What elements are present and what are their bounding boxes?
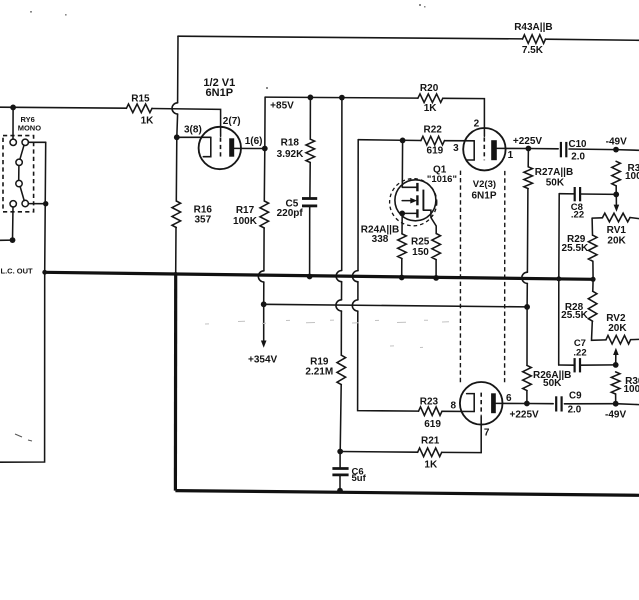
svg-text:1(6): 1(6) xyxy=(245,136,263,147)
resistor R22 xyxy=(421,136,445,145)
node -49V upper junction xyxy=(613,147,619,153)
relay arm middle xyxy=(18,166,20,181)
wire pin7 lead xyxy=(480,416,482,452)
svg-text:R15: R15 xyxy=(131,94,150,105)
transistor Q1 dashed circle xyxy=(390,179,437,226)
svg-text:+225V: +225V xyxy=(513,136,543,147)
wire plate node to R17 xyxy=(263,149,266,202)
svg-text:20K: 20K xyxy=(607,236,626,247)
svg-text:50K: 50K xyxy=(546,177,565,188)
V2 lower grid dashed electrode xyxy=(480,393,482,416)
resistor R16 xyxy=(172,201,181,228)
Q1 drain lead xyxy=(402,186,417,188)
node C6 border junction xyxy=(337,488,343,494)
wire left column below bus xyxy=(0,272,45,462)
arrow RV2 wiper xyxy=(613,348,619,355)
resistor R26A||B xyxy=(523,365,532,390)
wire R30 to C9 node xyxy=(615,394,617,404)
capacitor C8 xyxy=(574,187,576,201)
wire V2 plate to +225V xyxy=(497,147,529,149)
node -49V lower junction xyxy=(613,401,619,407)
resistor R30 100K xyxy=(611,372,620,394)
node C8 bus junction xyxy=(556,276,561,281)
wire RV1 right to edge xyxy=(630,218,639,219)
svg-text:7: 7 xyxy=(484,427,490,438)
wire x358 upper xyxy=(357,140,359,271)
left border thick xyxy=(174,274,178,491)
wire R19 to R21 node xyxy=(340,385,341,452)
svg-text:+225V: +225V xyxy=(509,409,539,420)
svg-text:619: 619 xyxy=(424,419,441,430)
wire rail junction down xyxy=(341,98,343,271)
node rail R19 junction xyxy=(339,95,345,101)
wire hop over 354 wire xyxy=(336,300,342,311)
wire between hops xyxy=(341,282,343,300)
svg-text:RV1: RV1 xyxy=(607,225,627,236)
capacitor C9 xyxy=(555,396,557,411)
node R24 bus junction xyxy=(399,275,405,281)
relay arm upper xyxy=(20,145,24,159)
wire x358 lower to R23 xyxy=(358,311,419,411)
svg-text:3: 3 xyxy=(453,143,459,154)
wire R28 to RV2 left xyxy=(592,321,607,340)
svg-text:3.92K: 3.92K xyxy=(277,149,304,160)
wire RV1 left xyxy=(592,217,602,219)
node bus box corner xyxy=(174,272,178,276)
wire input to R15 grid wire xyxy=(0,107,126,108)
wire Q1 drain vertical xyxy=(401,140,403,187)
svg-text:2.21M: 2.21M xyxy=(305,366,333,377)
wire R27 down xyxy=(526,189,529,273)
wire relay bottom-right to vertical xyxy=(28,203,45,205)
scan speck top xyxy=(30,4,426,89)
svg-text:R20: R20 xyxy=(420,83,439,94)
resistor R23 xyxy=(419,407,443,416)
Q1 body arrowhead xyxy=(410,198,417,204)
node C7 right junction xyxy=(613,362,619,368)
wire hop over grid wire xyxy=(172,103,178,114)
node V1 cathode junction 3(8) xyxy=(174,134,180,140)
svg-text:R23: R23 xyxy=(420,397,439,408)
node +225V upper junction xyxy=(526,146,532,152)
wire C7 left xyxy=(559,364,575,366)
scan speckle band xyxy=(205,320,449,347)
node V1 plate junction xyxy=(262,146,268,152)
svg-text:L.C. OUT: L.C. OUT xyxy=(1,267,33,276)
svg-text:MONO: MONO xyxy=(18,124,41,133)
wire V2 lower plate to +225V xyxy=(496,402,527,404)
V2 cathode bracket xyxy=(467,141,475,160)
wire bus end to R28 xyxy=(592,279,594,291)
resistor R20 xyxy=(418,94,443,103)
svg-text:619: 619 xyxy=(427,146,444,157)
arrow RV1 wiper xyxy=(614,205,620,212)
relay contact bottom-left xyxy=(10,201,16,207)
svg-text:-49V: -49V xyxy=(605,410,626,421)
wire R22 to V2 cathode xyxy=(445,140,475,142)
V2 lower cathode bracket xyxy=(467,394,475,412)
node rail R18 junction xyxy=(308,95,314,101)
Q1 channel segment mid xyxy=(416,195,418,205)
svg-text:RY6: RY6 xyxy=(21,115,35,124)
wire pin7 to R21 xyxy=(442,451,482,453)
node +225V lower junction xyxy=(524,401,530,407)
wire R26 top lead xyxy=(526,307,528,366)
ground bus thick xyxy=(45,272,593,279)
wire to C6 xyxy=(339,452,341,469)
svg-text:C9: C9 xyxy=(569,390,582,401)
capacitor C5 xyxy=(302,197,317,200)
wire relay top-right to vertical xyxy=(28,141,45,143)
wire +85V corner down to plate node xyxy=(264,97,266,148)
wire C8 left corner xyxy=(558,194,560,279)
node C8 right junction xyxy=(613,192,619,198)
svg-text:6N1P: 6N1P xyxy=(206,87,234,99)
svg-text:R22: R22 xyxy=(424,125,443,136)
svg-text:3(8): 3(8) xyxy=(184,125,202,136)
svg-text:100K: 100K xyxy=(624,384,639,395)
svg-text:6: 6 xyxy=(506,393,512,404)
node C5 bus junction xyxy=(307,274,313,280)
svg-text:8: 8 xyxy=(451,400,457,411)
resistor R43A||B xyxy=(523,35,546,44)
V1 cathode wire xyxy=(177,136,211,138)
wire cathode node to R16 xyxy=(175,137,178,201)
resistor R28 xyxy=(588,291,597,321)
resistor R18 xyxy=(306,139,315,162)
resistor R31 100K xyxy=(612,161,621,186)
V1 anode plate bar xyxy=(229,138,234,156)
node junction at relay branch xyxy=(10,105,16,111)
relay contact bottom-right xyxy=(22,200,28,206)
wire R15 to V1 grid xyxy=(152,109,221,137)
wire R17 down xyxy=(263,228,265,271)
svg-text:1: 1 xyxy=(508,150,514,161)
wire rail to R18 xyxy=(309,97,311,139)
V2 grid dashed electrode xyxy=(483,137,485,160)
arrow +354V xyxy=(261,341,267,348)
V1 grid dashed electrode xyxy=(220,138,222,160)
svg-text:100K: 100K xyxy=(625,171,639,182)
wire +225V to C10 xyxy=(528,148,558,150)
svg-text:+354V: +354V xyxy=(248,355,278,366)
wire RV1 wiper xyxy=(615,194,617,205)
capacitor C6 xyxy=(332,467,348,470)
wire -49V to edge xyxy=(616,149,639,152)
wire feedback vertical to cathode node xyxy=(176,114,179,137)
wire C5 to bus xyxy=(309,206,311,276)
wire hop over bus at R19 line xyxy=(336,271,342,282)
wire RV2 right to edge xyxy=(631,338,639,340)
wire hop over bus at R17 line xyxy=(258,271,264,282)
svg-text:"1016": "1016" xyxy=(427,174,457,185)
wire R25 to bus xyxy=(435,260,437,278)
Q1 body arrow lead xyxy=(402,200,411,202)
node Q1 source junction xyxy=(399,211,405,217)
V2 anode plate bar xyxy=(491,140,497,160)
svg-text:R17: R17 xyxy=(236,205,255,216)
transistor V2 envelope circle xyxy=(463,128,505,170)
wire to R26 node xyxy=(526,284,528,307)
Q1 source lead xyxy=(402,212,417,214)
scan marks bottom left xyxy=(15,434,32,441)
wire relay right vertical to bus xyxy=(45,142,46,272)
wire R29 to bus end xyxy=(592,261,594,279)
V2 lower anode plate bar xyxy=(491,393,496,413)
transistor Q1 circle xyxy=(395,180,436,221)
svg-text:150: 150 xyxy=(412,247,429,258)
wire top line left xyxy=(178,36,523,39)
capacitor C10 xyxy=(560,142,562,157)
svg-text:7.5K: 7.5K xyxy=(522,45,544,56)
node R21 junction xyxy=(337,449,343,455)
svg-text:338: 338 xyxy=(372,234,389,245)
svg-text:2.0: 2.0 xyxy=(568,405,582,416)
potentiometer RV1 xyxy=(603,213,631,222)
wire +85V rail xyxy=(265,97,418,98)
svg-text:25.5K: 25.5K xyxy=(561,310,588,321)
relay contact mid-upper xyxy=(16,159,22,165)
wire hop x358 bus xyxy=(352,271,358,282)
node R25 bus junction xyxy=(433,275,439,281)
wire +225V node to R27 xyxy=(527,149,529,167)
dashed envelope line left xyxy=(459,171,461,384)
svg-text:1K: 1K xyxy=(424,103,438,114)
relay contact top-left xyxy=(10,139,16,145)
wire feedback vertical upper xyxy=(177,36,179,102)
svg-text:R25: R25 xyxy=(411,237,430,248)
wire R31 to C8 node xyxy=(615,186,617,195)
wire -49V lower to edge xyxy=(616,403,639,406)
resistor R24A||B xyxy=(398,234,407,259)
resistor R27A||B xyxy=(524,167,533,189)
wire R18 to C5 xyxy=(309,163,311,198)
wire +225V lower to C9 xyxy=(527,403,553,405)
relay contact top-right xyxy=(22,139,28,145)
bottom border thick xyxy=(175,491,639,496)
dashed envelope line right xyxy=(504,171,506,382)
svg-text:2(7): 2(7) xyxy=(223,116,241,127)
svg-text:2.0: 2.0 xyxy=(571,152,585,163)
node R26 top junction xyxy=(524,304,530,310)
relay contact mid-lower xyxy=(16,180,22,186)
Q1 channel segment top xyxy=(416,183,418,191)
wire R20 to V2 grid xyxy=(443,98,485,136)
wire +354V to R26 top xyxy=(264,304,527,307)
Q1 gate bar xyxy=(422,190,424,211)
V1 cathode bracket xyxy=(203,137,211,156)
svg-text:1K: 1K xyxy=(141,116,155,127)
wire C8 line below bus xyxy=(558,279,560,365)
wire V1 plate to +85V node xyxy=(234,147,265,149)
svg-text:.22: .22 xyxy=(573,347,586,358)
wire R21 to R19 node xyxy=(340,451,417,454)
svg-text:C10: C10 xyxy=(569,139,588,150)
wire relay top-left contact lead xyxy=(12,107,14,139)
svg-text:20K: 20K xyxy=(608,323,627,334)
resistor R15 xyxy=(126,104,152,113)
svg-text:5uf: 5uf xyxy=(352,473,367,484)
svg-text:50K: 50K xyxy=(543,378,562,389)
relay arm lower xyxy=(20,187,24,201)
svg-text:-49V: -49V xyxy=(606,136,627,147)
wire top line right xyxy=(546,39,639,40)
svg-text:R18: R18 xyxy=(281,138,300,149)
svg-text:25.5K: 25.5K xyxy=(562,243,589,254)
svg-text:100K: 100K xyxy=(233,216,258,227)
svg-text:R43A||B: R43A||B xyxy=(514,22,552,33)
Q1 gate lead to R25 xyxy=(423,210,436,233)
node bus right end xyxy=(591,277,596,282)
wire x358 middle xyxy=(357,282,359,300)
wire hop x358 354wire xyxy=(352,300,358,311)
node left output junction xyxy=(10,237,16,243)
relay RY6 dashed enclosure xyxy=(3,136,34,212)
wire C8 right xyxy=(580,193,616,195)
svg-text:R21: R21 xyxy=(421,436,440,447)
wire C6 to border xyxy=(339,475,341,491)
resistor R17 xyxy=(260,201,269,228)
svg-text:220pf: 220pf xyxy=(277,208,304,219)
wire R24 to bus xyxy=(401,259,403,278)
resistor R25 xyxy=(432,234,441,260)
wire C7 right xyxy=(580,364,616,366)
node relay right junction xyxy=(43,201,48,206)
wire RV2 wiper shaft xyxy=(615,355,617,365)
wire C10 to -49V node xyxy=(569,148,616,151)
wire R26 to plate node xyxy=(526,391,528,404)
node Q1 top junction xyxy=(400,138,406,144)
Q1 channel segment bottom xyxy=(416,209,418,217)
resistor R21 xyxy=(418,448,442,457)
svg-text:357: 357 xyxy=(194,214,211,225)
wire C8 left xyxy=(559,193,575,195)
svg-text:V2(3): V2(3) xyxy=(473,179,496,190)
wire R22 line left segment xyxy=(358,139,421,142)
capacitor C7 xyxy=(573,358,575,372)
potentiometer RV2 xyxy=(606,335,631,344)
wire hop R27 line over bus xyxy=(522,272,528,283)
transistor V2 lower envelope circle xyxy=(460,382,503,425)
wire Q1 junction to R24 xyxy=(401,213,403,233)
op-amp V1 envelope circle xyxy=(199,127,241,169)
node +354V junction xyxy=(261,301,267,307)
resistor R19 xyxy=(337,355,346,384)
wire +354V stub xyxy=(263,304,265,341)
svg-text:+85V: +85V xyxy=(270,100,294,111)
svg-text:6N1P: 6N1P xyxy=(471,191,496,202)
wire RV1 left corner to R29 xyxy=(591,218,593,235)
wire R23 to cathode xyxy=(442,410,474,412)
svg-text:2: 2 xyxy=(474,118,480,129)
node bus left end xyxy=(42,270,47,275)
wire left exit xyxy=(0,239,13,241)
svg-text:.22: .22 xyxy=(571,210,584,221)
wire R17 line to +354V node xyxy=(263,282,265,304)
wire to R19 xyxy=(340,311,342,355)
wire relay bottom-left contact down xyxy=(12,207,15,240)
svg-text:1K: 1K xyxy=(424,460,438,471)
wire C9 to -49V node xyxy=(564,403,615,405)
wire R16 to bus xyxy=(175,228,177,275)
resistor R29 xyxy=(588,235,597,261)
